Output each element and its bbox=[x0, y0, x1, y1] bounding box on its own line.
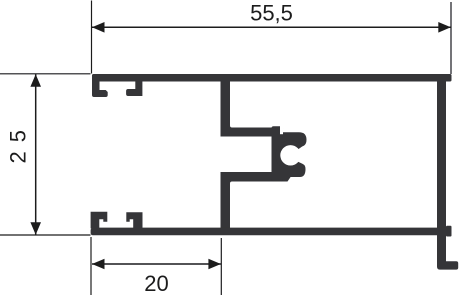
svg-text:25: 25 bbox=[5, 121, 30, 163]
svg-text:20: 20 bbox=[144, 271, 168, 295]
svg-text:55,5: 55,5 bbox=[250, 0, 293, 25]
